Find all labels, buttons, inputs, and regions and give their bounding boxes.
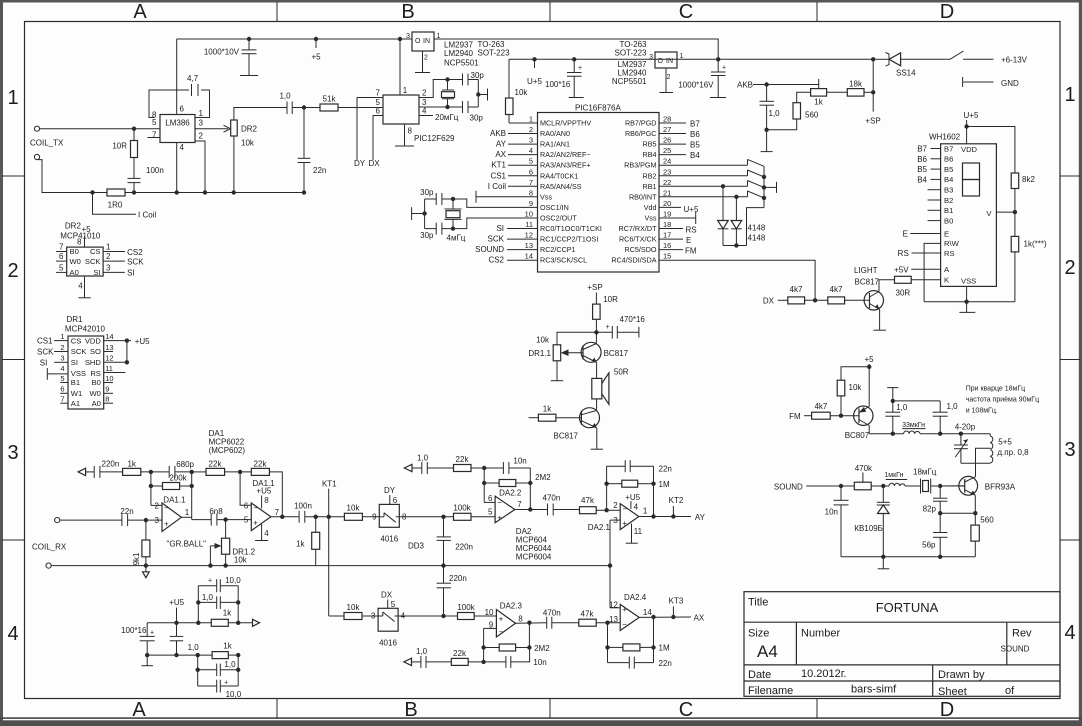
svg-text:2M2: 2M2 xyxy=(535,473,551,482)
svg-text:B1: B1 xyxy=(71,378,80,387)
svg-text:−: − xyxy=(497,498,502,507)
svg-text:I Coil: I Coil xyxy=(488,182,506,191)
svg-text:18: 18 xyxy=(663,220,671,229)
resistor 1R0 xyxy=(107,189,125,196)
svg-text:470*16: 470*16 xyxy=(620,315,646,324)
node KT2 xyxy=(672,506,674,517)
svg-text:100*16: 100*16 xyxy=(545,80,571,89)
off-page arrow 1,0 22k xyxy=(404,464,412,471)
svg-text:CS: CS xyxy=(90,247,101,256)
svg-text:47k: 47k xyxy=(581,496,595,505)
svg-text:B5: B5 xyxy=(690,141,700,150)
display WH1602 xyxy=(941,144,997,287)
capacitor 1,0 AKB xyxy=(766,85,768,102)
svg-text:FM: FM xyxy=(685,247,697,256)
capacitor 82p xyxy=(939,486,941,498)
capacitor 100*16 xyxy=(572,57,576,61)
svg-text:RC1/CCP2/T1OSI: RC1/CCP2/T1OSI xyxy=(540,235,598,244)
wire diode bottoms xyxy=(723,245,747,247)
trimmer 470k xyxy=(854,482,871,490)
svg-text:1000*16V: 1000*16V xyxy=(678,81,714,90)
ground bar switch bus xyxy=(764,186,777,188)
svg-text:10,0: 10,0 xyxy=(225,576,241,585)
svg-text:PIC12F629: PIC12F629 xyxy=(414,134,455,143)
svg-text:VSS: VSS xyxy=(961,276,976,285)
svg-text:КВ109Б: КВ109Б xyxy=(854,524,883,533)
svg-text:13: 13 xyxy=(105,343,113,352)
svg-text:5: 5 xyxy=(529,157,533,166)
svg-text:4: 4 xyxy=(7,623,18,645)
capacitor 100n out xyxy=(298,511,300,523)
svg-text:560: 560 xyxy=(980,516,994,525)
transistor BC817 driver xyxy=(581,342,601,362)
svg-text:OSC1/IN: OSC1/IN xyxy=(540,203,569,212)
svg-text:1k: 1k xyxy=(223,642,232,651)
svg-text:DR1.1: DR1.1 xyxy=(528,349,551,358)
svg-text:+: + xyxy=(497,513,502,522)
svg-text:+: + xyxy=(606,324,610,331)
svg-text:8k2: 8k2 xyxy=(1022,175,1035,184)
svg-text:14: 14 xyxy=(643,608,652,617)
wire feedback loop pin8-pin1 xyxy=(149,90,189,118)
wire pin2 to crystal xyxy=(419,80,463,98)
svg-text:Vdd: Vdd xyxy=(644,203,657,212)
svg-text:14: 14 xyxy=(525,252,533,261)
svg-text:+: + xyxy=(164,519,169,528)
ground regulator1 pin2 xyxy=(422,51,424,73)
wire VSS bottom xyxy=(966,286,968,312)
capacitor 680p xyxy=(168,466,170,478)
svg-text:220n: 220n xyxy=(449,574,467,583)
svg-text:CS1: CS1 xyxy=(37,337,53,346)
svg-text:9: 9 xyxy=(372,513,377,522)
potentiometer DR1.2 xyxy=(225,520,227,539)
svg-text:2: 2 xyxy=(1064,257,1075,279)
switch SA blade 4 xyxy=(747,191,749,197)
ground radio xyxy=(882,557,884,569)
svg-text:Title: Title xyxy=(748,597,768,609)
svg-text:RA4/T0CK1: RA4/T0CK1 xyxy=(540,171,578,180)
node +5 xyxy=(314,37,318,41)
svg-text:10.2012г.: 10.2012г. xyxy=(801,668,847,680)
svg-text:DX: DX xyxy=(381,590,393,599)
svg-text:B3: B3 xyxy=(944,186,953,195)
svg-text:RA1/AN1: RA1/AN1 xyxy=(540,140,570,149)
svg-text:10k: 10k xyxy=(347,503,361,512)
svg-text:10: 10 xyxy=(485,608,494,617)
wiper DR1.1 to base xyxy=(564,352,584,354)
speaker 50R xyxy=(596,363,598,379)
svg-text:AY: AY xyxy=(695,513,706,522)
svg-text:C: C xyxy=(679,699,693,721)
switch SA blade 2 xyxy=(747,170,749,176)
svg-text:3: 3 xyxy=(371,612,376,621)
wire pin12 xyxy=(610,607,620,609)
svg-text:RS: RS xyxy=(944,249,955,258)
svg-text:KT1: KT1 xyxy=(322,480,337,489)
potentiometer DR1.1 xyxy=(557,332,596,345)
diode SS14 xyxy=(875,58,889,60)
svg-text:RC0/T1OC0/T1CKI: RC0/T1OC0/T1CKI xyxy=(540,224,602,233)
svg-text:NCP5501: NCP5501 xyxy=(444,59,479,68)
pin numbers right xyxy=(663,115,671,261)
svg-text:7: 7 xyxy=(59,242,64,251)
svg-text:SI: SI xyxy=(127,269,135,278)
svg-text:+5: +5 xyxy=(864,355,874,364)
svg-text:22k: 22k xyxy=(453,649,467,658)
svg-text:+: + xyxy=(224,679,228,686)
svg-text:частота приёма 90мГц: частота приёма 90мГц xyxy=(966,397,1039,404)
svg-text:10: 10 xyxy=(525,210,533,219)
svg-text:B6: B6 xyxy=(917,155,927,164)
svg-text:+: + xyxy=(208,578,212,585)
svg-text:E: E xyxy=(686,236,691,245)
svg-text:1R0: 1R0 xyxy=(108,201,123,210)
svg-text:2: 2 xyxy=(199,132,204,141)
svg-text:22k: 22k xyxy=(456,455,470,464)
svg-text:д.пр. 0,8: д.пр. 0,8 xyxy=(997,448,1029,457)
capacitor 30p bottom xyxy=(462,101,464,113)
node I Coil tap xyxy=(90,190,94,194)
capacitor 1,0 fb xyxy=(421,462,423,474)
svg-text:9: 9 xyxy=(529,199,533,208)
terminal COIL_TX xyxy=(34,126,39,131)
svg-text:MCP42010: MCP42010 xyxy=(65,325,106,334)
svg-text:10: 10 xyxy=(105,374,113,383)
wire pin6 xyxy=(240,472,251,505)
svg-text:+U5: +U5 xyxy=(625,493,640,502)
svg-text:3: 3 xyxy=(7,442,18,464)
wire to 51k xyxy=(292,107,320,109)
op-amp LM386 xyxy=(160,115,195,143)
svg-text:DA2.1: DA2.1 xyxy=(588,523,611,532)
svg-text:SOUND: SOUND xyxy=(475,245,504,254)
capacitor 22n fb2 xyxy=(608,662,630,664)
svg-text:RB1: RB1 xyxy=(643,182,657,191)
row ticks right xyxy=(1060,175,1080,177)
resistor 10k dy xyxy=(344,513,362,520)
op-amp DA2.1 xyxy=(620,504,639,530)
svg-text:2: 2 xyxy=(422,89,427,98)
svg-text:RB7/PGD: RB7/PGD xyxy=(625,119,657,128)
svg-text:AY: AY xyxy=(496,140,507,149)
svg-text:10n: 10n xyxy=(533,658,546,667)
svg-text:A0: A0 xyxy=(92,399,101,408)
node rail to pin1 xyxy=(398,37,402,41)
capacitor 100n xyxy=(133,158,135,179)
svg-text:BFR93A: BFR93A xyxy=(985,483,1016,492)
svg-text:3: 3 xyxy=(60,354,64,363)
svg-text:BC817: BC817 xyxy=(554,432,579,441)
svg-text:NCP5501: NCP5501 xyxy=(612,77,647,86)
svg-text:VSS: VSS xyxy=(71,369,86,378)
svg-text:KT3: KT3 xyxy=(669,597,684,606)
capacitor 1000*10V xyxy=(248,39,250,50)
svg-text:W0: W0 xyxy=(90,389,101,398)
svg-text:100n: 100n xyxy=(294,501,312,510)
capacitor 470n xyxy=(547,504,549,516)
svg-text:A: A xyxy=(133,1,147,23)
svg-text:−: − xyxy=(622,504,627,513)
resistor 1k(***) xyxy=(1011,236,1019,252)
chassis arrow xyxy=(145,566,147,572)
svg-text:5: 5 xyxy=(488,508,493,517)
wire pin9 OSC1 xyxy=(442,199,538,207)
junction dots on bus xyxy=(132,190,136,194)
resistor 2M2 fb xyxy=(484,482,499,484)
wire ground rail xyxy=(51,565,610,567)
svg-text:DD3: DD3 xyxy=(408,542,425,551)
svg-text:3: 3 xyxy=(649,54,653,61)
svg-text:of: of xyxy=(1005,685,1015,697)
svg-text:7: 7 xyxy=(517,500,522,509)
svg-text:1: 1 xyxy=(680,53,684,60)
svg-text:7: 7 xyxy=(152,131,157,140)
svg-text:5: 5 xyxy=(244,516,249,525)
svg-text:56p: 56p xyxy=(922,541,936,550)
svg-text:1,0: 1,0 xyxy=(417,453,429,462)
svg-text:15: 15 xyxy=(663,252,671,261)
wire K xyxy=(911,279,940,281)
svg-text:11: 11 xyxy=(525,220,533,229)
capacitor 1,0 xyxy=(286,102,288,115)
terminal GND xyxy=(962,77,964,87)
svg-text:4148: 4148 xyxy=(748,234,766,243)
capacitor 22n fb1 xyxy=(606,466,608,484)
svg-text:−: − xyxy=(499,627,504,636)
svg-text:CS1: CS1 xyxy=(490,171,506,180)
svg-text:1,0: 1,0 xyxy=(947,402,959,411)
svg-text:10n: 10n xyxy=(825,508,838,517)
capacitor 30p osc bottom xyxy=(435,223,437,235)
svg-text:1,0: 1,0 xyxy=(188,643,200,652)
trimmer 1k xyxy=(811,89,827,97)
node junction 1000uF xyxy=(247,37,251,41)
wire DR2 bottom to bus xyxy=(233,136,235,193)
svg-text:470n: 470n xyxy=(543,494,561,503)
ground display xyxy=(959,311,975,313)
svg-text:4148: 4148 xyxy=(748,224,766,233)
svg-text:O: O xyxy=(415,38,421,45)
svg-text:RC3/SCK/SCL: RC3/SCK/SCL xyxy=(540,256,587,265)
resistor 1k rowB xyxy=(212,652,228,659)
svg-text:24: 24 xyxy=(663,157,671,166)
svg-text:47k: 47k xyxy=(581,610,595,619)
wire left input labels xyxy=(475,129,507,265)
wire +5 top rail xyxy=(177,38,412,40)
capacitor 4,7 xyxy=(191,84,193,96)
svg-text:30R: 30R xyxy=(896,289,911,298)
capacitor 6n8 xyxy=(210,514,212,526)
resistor 47k xyxy=(580,507,597,514)
svg-text:10R: 10R xyxy=(112,142,127,151)
svg-text:LM2940: LM2940 xyxy=(444,49,473,58)
svg-text:SOUND: SOUND xyxy=(1001,645,1030,654)
resistor 10k dx xyxy=(344,613,362,620)
wire pin6 fb column xyxy=(484,501,495,503)
svg-text:18мГц: 18мГц xyxy=(913,468,937,477)
switch power xyxy=(901,58,950,60)
svg-text:SI: SI xyxy=(40,358,48,367)
svg-text:LM386: LM386 xyxy=(165,119,190,128)
wire main battery rail xyxy=(509,58,873,60)
svg-text:13: 13 xyxy=(609,615,618,624)
wire RW to vss xyxy=(924,243,941,301)
svg-text:A0: A0 xyxy=(70,268,79,277)
svg-text:−: − xyxy=(253,503,258,512)
node U+5 xyxy=(532,57,536,61)
svg-text:B4: B4 xyxy=(917,175,927,184)
capacitor 220n in xyxy=(93,466,95,478)
svg-text:1k: 1k xyxy=(296,540,305,549)
svg-text:SI: SI xyxy=(93,268,100,277)
svg-text:1,0: 1,0 xyxy=(769,109,781,118)
wire pin2 to bus xyxy=(195,141,205,193)
svg-text:10R: 10R xyxy=(603,295,618,304)
resistor 560 emitter xyxy=(971,525,979,541)
svg-text:4мГц: 4мГц xyxy=(447,234,466,243)
svg-text:−: − xyxy=(622,620,627,629)
svg-text:(MCP602): (MCP602) xyxy=(209,446,246,455)
capacitor 10n sound xyxy=(840,486,842,500)
svg-text:+5: +5 xyxy=(81,225,91,234)
wire coil tap to BFR93A xyxy=(976,448,991,477)
resistor 2M2 lower xyxy=(484,647,500,649)
svg-text:SCK: SCK xyxy=(85,257,101,266)
svg-text:RA0/AN0: RA0/AN0 xyxy=(540,129,570,138)
svg-text:D: D xyxy=(940,1,954,23)
svg-text:22n: 22n xyxy=(313,166,326,175)
svg-text:SHD: SHD xyxy=(85,358,102,367)
svg-text:При кварце 18мГц: При кварце 18мГц xyxy=(966,386,1025,393)
lcd digit glyph xyxy=(963,163,980,180)
svg-text:RB0/INT: RB0/INT xyxy=(629,192,657,201)
svg-text:B7: B7 xyxy=(917,145,927,154)
ground regulator2 pin2 xyxy=(665,68,667,93)
wire crystal caps common xyxy=(468,79,478,81)
svg-text:1,0: 1,0 xyxy=(202,593,214,602)
resistor 10k radio xyxy=(841,367,869,380)
svg-text:10k: 10k xyxy=(234,556,248,565)
svg-text:22: 22 xyxy=(663,178,671,187)
svg-text:2: 2 xyxy=(106,252,111,261)
svg-text:RS: RS xyxy=(686,226,697,235)
svg-text:4: 4 xyxy=(634,503,639,512)
svg-text:RC5/SDO: RC5/SDO xyxy=(625,245,657,254)
svg-text:B5: B5 xyxy=(917,165,927,174)
svg-text:18k: 18k xyxy=(849,80,863,89)
svg-text:2: 2 xyxy=(613,501,618,510)
svg-text:1k: 1k xyxy=(543,405,552,414)
wire V pin xyxy=(996,211,1015,213)
resistor 10k to MCLR xyxy=(508,59,510,98)
resistor 10R xyxy=(593,304,601,319)
transistor BFR93A xyxy=(959,476,978,495)
svg-text:30p: 30p xyxy=(420,188,434,197)
capacitor 22n rx xyxy=(60,519,122,521)
wires pins 24-21 to switches xyxy=(659,164,748,166)
svg-text:30p: 30p xyxy=(470,114,484,123)
svg-text:−: − xyxy=(164,503,169,512)
svg-text:6: 6 xyxy=(59,252,64,261)
svg-text:9: 9 xyxy=(105,385,109,394)
wire pin4 stub xyxy=(419,115,433,117)
svg-text:B4: B4 xyxy=(690,151,700,160)
svg-text:Date: Date xyxy=(748,669,771,681)
wire pin16 FM xyxy=(659,249,683,251)
svg-text:5+5: 5+5 xyxy=(998,438,1012,447)
switch SA blade 3 xyxy=(747,181,749,187)
svg-text:10k: 10k xyxy=(849,383,863,392)
wire radio ground rail xyxy=(841,556,975,558)
resistor 22k fb xyxy=(454,465,472,472)
svg-text:BC817: BC817 xyxy=(604,349,629,358)
svg-text:SCK: SCK xyxy=(37,348,54,357)
capacitor 1,0 fb lower xyxy=(420,656,422,668)
svg-text:COIL_RX: COIL_RX xyxy=(32,543,67,552)
svg-text:1000*10V: 1000*10V xyxy=(204,48,240,57)
wire pin20 U+5 xyxy=(659,206,681,208)
off-page arrow 1,0 22k lower xyxy=(404,658,412,665)
svg-text:RB2: RB2 xyxy=(643,171,657,180)
regulator U? LM2937 second xyxy=(655,52,677,68)
resistor 560 xyxy=(797,92,811,102)
svg-text:6: 6 xyxy=(60,385,64,394)
DR1 pin numbers xyxy=(60,332,64,404)
capacitor 56p xyxy=(933,532,947,534)
svg-text:B0: B0 xyxy=(92,378,101,387)
svg-text:U+5: U+5 xyxy=(527,77,542,86)
wire pin7 stub xyxy=(148,137,161,139)
svg-text:"GR.BALL": "GR.BALL" xyxy=(167,540,207,549)
svg-text:DY: DY xyxy=(384,486,396,495)
svg-text:RS: RS xyxy=(898,249,909,258)
svg-text:E: E xyxy=(903,230,908,239)
svg-text:3: 3 xyxy=(406,33,410,40)
svg-text:RB3/PGM: RB3/PGM xyxy=(624,161,656,170)
svg-text:VDD: VDD xyxy=(85,336,102,345)
svg-text:13: 13 xyxy=(525,241,533,250)
svg-text:SOT-223: SOT-223 xyxy=(614,49,647,58)
resistor 200k xyxy=(150,472,152,506)
svg-text:33мкГн: 33мкГн xyxy=(902,422,925,429)
svg-text:4016: 4016 xyxy=(379,638,397,647)
svg-text:82p: 82p xyxy=(923,505,937,514)
svg-text:1: 1 xyxy=(199,109,204,118)
svg-text:1k(***): 1k(***) xyxy=(1024,240,1047,249)
svg-text:7: 7 xyxy=(60,395,64,404)
svg-text:6n8: 6n8 xyxy=(209,507,223,516)
resistor 1k shunt xyxy=(314,515,318,519)
svg-text:CS2: CS2 xyxy=(127,248,143,257)
pin8 +U5 stem xyxy=(261,496,263,509)
svg-text:AX: AX xyxy=(694,613,705,622)
varicap KV109B xyxy=(882,486,884,502)
svg-text:SS14: SS14 xyxy=(896,69,916,78)
svg-text:B2: B2 xyxy=(944,196,953,205)
resistor 10R xyxy=(133,129,135,141)
ground bar top xyxy=(887,387,898,389)
svg-text:+: + xyxy=(499,614,504,623)
svg-text:10n: 10n xyxy=(513,457,526,466)
ground DR2 pin4 xyxy=(84,276,86,298)
svg-text:4: 4 xyxy=(78,281,83,290)
svg-text:51k: 51k xyxy=(323,95,337,104)
svg-text:6: 6 xyxy=(529,167,533,176)
svg-text:+SP: +SP xyxy=(587,283,602,292)
svg-text:1k: 1k xyxy=(127,459,136,468)
svg-text:2: 2 xyxy=(7,260,18,282)
